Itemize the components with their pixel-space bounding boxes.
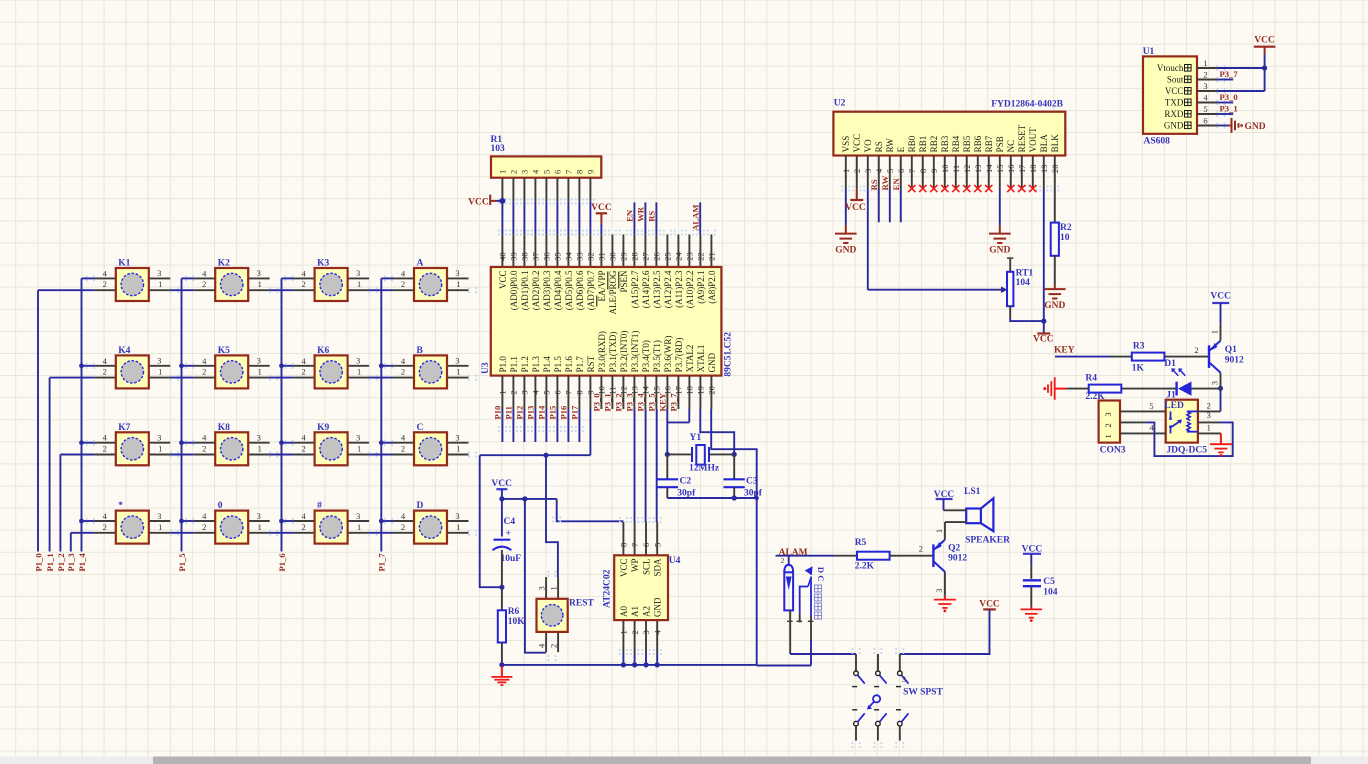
svg-text:WR: WR [636, 206, 646, 222]
svg-text:2: 2 [781, 556, 785, 565]
svg-text:1: 1 [258, 444, 262, 454]
svg-text:34: 34 [564, 252, 574, 261]
svg-text:C2: C2 [680, 477, 692, 487]
svg-text:(AD3)P0.3: (AD3)P0.3 [542, 270, 552, 310]
svg-text:P3_7: P3_7 [669, 393, 679, 412]
svg-text:1K: 1K [1132, 363, 1145, 373]
svg-text:1: 1 [1207, 422, 1211, 432]
svg-text:VCC: VCC [1033, 335, 1054, 345]
svg-text:1: 1 [498, 170, 508, 174]
svg-text:EN: EN [625, 209, 635, 222]
svg-text:1: 1 [258, 367, 262, 377]
svg-text:RW: RW [885, 138, 895, 153]
svg-text:17: 17 [674, 386, 684, 395]
svg-text:2: 2 [301, 444, 305, 454]
svg-text:5: 5 [1203, 104, 1207, 114]
svg-text:RB1: RB1 [918, 136, 928, 153]
svg-text:2: 2 [103, 279, 107, 289]
svg-text:4: 4 [202, 433, 207, 443]
svg-text:P3.3(INT1): P3.3(INT1) [630, 331, 640, 373]
svg-text:BLA: BLA [1039, 134, 1049, 153]
svg-text:9012: 9012 [1225, 356, 1244, 366]
svg-text:3: 3 [356, 356, 360, 366]
svg-text:PSB: PSB [995, 136, 1005, 152]
svg-text:WP: WP [630, 559, 640, 573]
svg-text:20: 20 [707, 386, 717, 395]
svg-text:2: 2 [509, 170, 519, 174]
svg-text:(AD5)P0.5: (AD5)P0.5 [564, 270, 574, 310]
svg-text:P1.5: P1.5 [553, 356, 563, 373]
svg-text:1: 1 [1209, 330, 1219, 334]
svg-text:JDQ-DC5: JDQ-DC5 [1166, 445, 1207, 455]
svg-text:3: 3 [1103, 412, 1113, 416]
svg-text:30pf: 30pf [744, 489, 763, 499]
svg-text:GND: GND [1245, 122, 1266, 132]
svg-text:5: 5 [1149, 401, 1153, 411]
svg-text:GND: GND [653, 597, 663, 617]
svg-text:3: 3 [455, 268, 459, 278]
svg-text:VCC: VCC [852, 134, 862, 153]
svg-text:Y1: Y1 [690, 433, 702, 443]
svg-text:GND: GND [989, 246, 1010, 256]
svg-text:P1.1: P1.1 [509, 356, 519, 372]
svg-text:1: 1 [258, 279, 262, 289]
svg-text:3: 3 [257, 511, 261, 521]
svg-text:LED: LED [1164, 401, 1184, 411]
svg-text:K2: K2 [218, 259, 230, 269]
svg-text:VCC: VCC [979, 599, 1000, 609]
svg-text:2: 2 [630, 630, 640, 634]
svg-text:(A12)P2.4: (A12)P2.4 [663, 270, 673, 308]
svg-text:6: 6 [553, 390, 563, 394]
svg-text:21: 21 [707, 252, 717, 261]
svg-text:GND: GND [1044, 301, 1065, 311]
svg-text:P1_0: P1_0 [33, 553, 43, 571]
svg-text:Vtouch: Vtouch [1157, 63, 1184, 73]
svg-text:4: 4 [202, 511, 207, 521]
svg-text:1: 1 [1103, 434, 1113, 438]
svg-text:35: 35 [553, 252, 563, 261]
svg-text:P3_4: P3_4 [636, 393, 646, 412]
svg-text:1: 1 [841, 169, 851, 173]
svg-text:VO: VO [863, 139, 873, 152]
svg-text:RB3: RB3 [940, 135, 950, 152]
svg-text:P1_3: P1_3 [66, 553, 76, 571]
svg-text:2.2K: 2.2K [855, 562, 875, 572]
svg-text:1: 1 [357, 279, 361, 289]
svg-text:4: 4 [531, 169, 541, 174]
svg-text:40: 40 [498, 252, 508, 260]
svg-text:2: 2 [103, 444, 107, 454]
svg-text:A2: A2 [641, 606, 651, 617]
svg-text:P3_3: P3_3 [625, 393, 635, 411]
svg-text:2: 2 [1194, 345, 1198, 355]
svg-text:4: 4 [103, 356, 108, 366]
svg-text:7: 7 [907, 169, 917, 173]
svg-text:38: 38 [520, 252, 530, 261]
svg-text:3: 3 [356, 268, 360, 278]
svg-text:RS: RS [647, 211, 657, 222]
svg-text:Sout: Sout [1167, 75, 1184, 85]
svg-text:4: 4 [652, 630, 662, 635]
svg-text:U2: U2 [834, 99, 846, 109]
svg-text:J1: J1 [1166, 390, 1176, 400]
svg-text:6: 6 [553, 170, 563, 174]
svg-text:A: A [417, 259, 424, 269]
svg-text:#: # [317, 501, 322, 511]
svg-text:RW: RW [880, 175, 890, 190]
svg-text:XTAL2: XTAL2 [685, 345, 695, 373]
svg-text:18: 18 [1028, 165, 1038, 174]
svg-text:B: B [417, 346, 424, 356]
svg-text:104: 104 [1016, 278, 1031, 288]
svg-text:P1_6: P1_6 [277, 553, 287, 572]
svg-text:+: + [506, 529, 511, 539]
svg-text:Q1: Q1 [1225, 345, 1237, 355]
svg-text:VCC: VCC [1165, 86, 1184, 96]
svg-text:7: 7 [564, 390, 574, 394]
svg-text:9: 9 [929, 169, 939, 173]
svg-text:3: 3 [157, 511, 161, 521]
svg-text:P1_1: P1_1 [45, 553, 55, 571]
svg-text:P13: P13 [526, 406, 536, 420]
svg-text:P1_7: P1_7 [377, 553, 387, 572]
svg-text:10: 10 [1060, 233, 1070, 243]
svg-text:4: 4 [103, 268, 108, 278]
svg-text:10uF: 10uF [501, 554, 522, 564]
svg-text:6: 6 [896, 169, 906, 173]
svg-text:8: 8 [918, 169, 928, 173]
svg-text:2: 2 [919, 544, 923, 554]
svg-text:P3.2(INT0): P3.2(INT0) [619, 331, 629, 373]
svg-text:SPEAKER: SPEAKER [965, 536, 1010, 546]
svg-text:ALAM: ALAM [690, 205, 700, 231]
svg-text:0: 0 [218, 501, 223, 511]
svg-text:C5: C5 [1043, 577, 1055, 587]
svg-text:4: 4 [301, 268, 306, 278]
svg-text:39: 39 [509, 252, 519, 261]
svg-text:LS1: LS1 [964, 487, 981, 497]
svg-text:(AD1)P0.1: (AD1)P0.1 [520, 271, 530, 311]
svg-text:104: 104 [1043, 588, 1058, 598]
svg-text:16: 16 [1006, 165, 1016, 174]
svg-text:3: 3 [157, 356, 161, 366]
svg-text:11: 11 [951, 165, 961, 173]
svg-text:3: 3 [356, 433, 360, 443]
svg-text:(A10)P2.2: (A10)P2.2 [685, 271, 695, 309]
svg-text:A0: A0 [619, 606, 629, 617]
svg-text:10: 10 [597, 386, 607, 395]
svg-text:U3: U3 [481, 362, 491, 374]
svg-text:GND: GND [707, 352, 717, 372]
svg-text:RST: RST [586, 355, 596, 372]
svg-text:RESET: RESET [1017, 124, 1027, 152]
svg-text:3: 3 [863, 169, 873, 173]
svg-text:VCC: VCC [619, 559, 629, 578]
svg-text:EN: EN [891, 178, 901, 191]
svg-text:9012: 9012 [948, 554, 967, 564]
svg-text:BLK: BLK [1050, 134, 1060, 153]
svg-text:30: 30 [608, 252, 618, 261]
svg-text:1: 1 [158, 444, 162, 454]
svg-text:2: 2 [103, 367, 107, 377]
svg-text:3: 3 [455, 356, 459, 366]
svg-text:XTAL1: XTAL1 [696, 345, 706, 373]
svg-text:P10: P10 [493, 406, 503, 420]
svg-text:VCC: VCC [845, 203, 866, 213]
svg-text:3: 3 [520, 170, 530, 174]
svg-text:3: 3 [257, 356, 261, 366]
svg-text:D1: D1 [1164, 359, 1176, 369]
svg-text:P1.2: P1.2 [520, 356, 530, 372]
svg-text:P3_0: P3_0 [592, 393, 602, 411]
svg-text:2: 2 [852, 169, 862, 173]
svg-text:5: 5 [542, 390, 552, 394]
svg-text:2: 2 [202, 279, 206, 289]
svg-text:NC: NC [1006, 140, 1016, 153]
svg-text:RS: RS [874, 141, 884, 152]
svg-text:R3: R3 [1133, 341, 1145, 351]
svg-text:AS608: AS608 [1144, 136, 1171, 146]
svg-text:(A15)P2.7: (A15)P2.7 [630, 270, 640, 308]
svg-text:K5: K5 [218, 346, 230, 356]
svg-text:P3_1: P3_1 [1220, 104, 1238, 114]
svg-text:CON3: CON3 [1100, 445, 1126, 455]
svg-text:P3.7(RD): P3.7(RD) [674, 338, 684, 373]
svg-text:1: 1 [158, 522, 162, 532]
svg-text:2: 2 [509, 390, 519, 394]
svg-text:2: 2 [401, 444, 405, 454]
svg-text:1: 1 [357, 367, 361, 377]
svg-text:32: 32 [586, 252, 596, 261]
svg-text:4: 4 [202, 356, 207, 366]
svg-text:3: 3 [1209, 381, 1219, 385]
svg-text:RT1: RT1 [1016, 268, 1034, 278]
svg-text:12: 12 [619, 386, 629, 395]
svg-text:10K: 10K [508, 617, 526, 627]
svg-text:RB0: RB0 [907, 135, 917, 152]
svg-text:2: 2 [301, 522, 305, 532]
svg-text:3: 3 [934, 589, 944, 593]
svg-text:P12: P12 [515, 406, 525, 420]
svg-text:1: 1 [456, 279, 460, 289]
svg-text:3: 3 [455, 511, 459, 521]
svg-text:1: 1 [498, 390, 508, 394]
svg-text:12: 12 [962, 165, 972, 174]
svg-text:P3_0: P3_0 [1220, 92, 1238, 102]
svg-text:P3_5: P3_5 [647, 393, 657, 411]
svg-text:E: E [896, 146, 906, 152]
svg-text:23: 23 [685, 252, 695, 261]
svg-text:3: 3 [356, 511, 360, 521]
svg-text:*: * [118, 501, 123, 511]
svg-text:7: 7 [564, 170, 574, 174]
svg-text:K7: K7 [118, 423, 130, 433]
svg-text:9: 9 [586, 170, 596, 174]
svg-text:P14: P14 [537, 405, 547, 420]
svg-text:18: 18 [685, 386, 695, 395]
svg-text:2: 2 [1203, 69, 1207, 79]
svg-text:P16: P16 [559, 405, 569, 420]
svg-text:RS: RS [869, 179, 879, 190]
svg-text:P15: P15 [548, 406, 558, 420]
svg-text:3: 3 [520, 390, 530, 394]
svg-text:ALE/PROG: ALE/PROG [608, 270, 618, 315]
svg-text:P3_1: P3_1 [603, 393, 613, 411]
svg-text:3: 3 [537, 586, 547, 590]
svg-text:3: 3 [257, 268, 261, 278]
svg-text:RB2: RB2 [929, 136, 939, 153]
svg-text:VCC: VCC [591, 203, 612, 213]
svg-text:K1: K1 [118, 259, 130, 269]
svg-text:(A14)P2.6: (A14)P2.6 [641, 270, 651, 308]
svg-text:P1.3: P1.3 [531, 356, 541, 373]
svg-text:4: 4 [202, 268, 207, 278]
svg-text:3: 3 [1207, 410, 1211, 420]
svg-text:SDA: SDA [653, 558, 663, 577]
svg-text:2: 2 [401, 522, 405, 532]
svg-text:4: 4 [103, 511, 108, 521]
svg-text:C: C [417, 423, 424, 433]
svg-text:8: 8 [575, 170, 585, 174]
svg-text:26: 26 [652, 252, 662, 261]
svg-text:4: 4 [531, 390, 541, 395]
svg-text:7: 7 [630, 543, 640, 547]
svg-text:28: 28 [630, 252, 640, 261]
svg-text:1: 1 [456, 444, 460, 454]
svg-text:36: 36 [542, 252, 552, 261]
svg-text:5: 5 [652, 543, 662, 547]
svg-text:R4: R4 [1085, 374, 1097, 384]
svg-text:2: 2 [549, 644, 559, 648]
svg-text:2: 2 [301, 279, 305, 289]
svg-text:4: 4 [301, 433, 306, 443]
svg-text:P3.4(T0): P3.4(T0) [641, 340, 651, 372]
svg-text:29: 29 [619, 252, 629, 261]
svg-text:6: 6 [1203, 115, 1207, 125]
svg-text:EA/VPP: EA/VPP [597, 271, 607, 302]
svg-text:P3.0(RXD): P3.0(RXD) [597, 331, 607, 372]
svg-text:12MHz: 12MHz [689, 464, 720, 474]
svg-text:3: 3 [641, 630, 651, 634]
svg-text:8: 8 [619, 543, 629, 547]
svg-text:3: 3 [257, 433, 261, 443]
svg-text:8: 8 [575, 390, 585, 394]
svg-text:14: 14 [641, 385, 651, 394]
svg-text:3: 3 [902, 674, 906, 684]
svg-text:3: 3 [1203, 81, 1207, 91]
svg-text:(A11)P2.3: (A11)P2.3 [674, 270, 684, 308]
svg-text:R6: R6 [508, 607, 520, 617]
svg-text:RB5: RB5 [962, 135, 972, 152]
svg-text:1: 1 [456, 367, 460, 377]
svg-text:VCC: VCC [1210, 291, 1231, 301]
svg-text:RB6: RB6 [973, 135, 983, 152]
svg-text:89C51.C52: 89C51.C52 [724, 332, 734, 377]
svg-text:30pf: 30pf [677, 489, 696, 499]
svg-text:P1_4: P1_4 [77, 553, 87, 572]
svg-text:27: 27 [641, 252, 651, 261]
svg-text:R5: R5 [855, 538, 867, 548]
svg-text:VCC: VCC [491, 479, 512, 489]
svg-text:R2: R2 [1060, 223, 1072, 233]
svg-text:KEY: KEY [1054, 346, 1075, 356]
svg-text:K6: K6 [317, 346, 329, 356]
svg-text:VCC: VCC [1254, 36, 1275, 46]
svg-text:1: 1 [158, 367, 162, 377]
svg-text:A1: A1 [630, 606, 640, 617]
svg-text:U4: U4 [669, 556, 681, 566]
svg-text:SW SPST: SW SPST [903, 688, 943, 698]
svg-text:TXD: TXD [1165, 98, 1184, 108]
svg-text:24: 24 [674, 252, 684, 261]
svg-text:103: 103 [491, 144, 506, 154]
svg-text:D: D [417, 501, 424, 511]
svg-text:15: 15 [995, 165, 1005, 174]
svg-text:2: 2 [202, 444, 206, 454]
svg-text:33: 33 [575, 252, 585, 261]
svg-text:25: 25 [663, 252, 673, 261]
svg-text:1: 1 [357, 444, 361, 454]
svg-text:P1.6: P1.6 [564, 356, 574, 373]
svg-text:19: 19 [696, 386, 706, 395]
svg-text:14: 14 [984, 164, 994, 173]
svg-text:GND: GND [835, 246, 856, 256]
svg-text:C4: C4 [504, 517, 516, 527]
svg-text:P1_2: P1_2 [56, 553, 66, 571]
svg-text:K8: K8 [218, 423, 230, 433]
svg-text:2: 2 [401, 367, 405, 377]
svg-text:KEY: KEY [658, 392, 668, 411]
svg-text:(A13)P2.5: (A13)P2.5 [652, 270, 662, 308]
svg-text:22: 22 [696, 252, 706, 261]
svg-text:2: 2 [1103, 423, 1113, 427]
svg-text:37: 37 [531, 252, 541, 261]
svg-text:P3.6(WR): P3.6(WR) [663, 336, 673, 373]
svg-text:SCL: SCL [641, 559, 651, 576]
svg-text:1: 1 [158, 279, 162, 289]
svg-text:19: 19 [1039, 165, 1049, 174]
svg-text:P1.4: P1.4 [542, 356, 552, 373]
svg-text:(AD4)P0.4: (AD4)P0.4 [553, 270, 563, 310]
svg-text:2: 2 [202, 367, 206, 377]
svg-text:VCC: VCC [498, 271, 508, 290]
svg-text:(AD6)P0.6: (AD6)P0.6 [575, 270, 585, 310]
svg-text:P1.7: P1.7 [575, 356, 585, 373]
svg-text:20: 20 [1050, 165, 1060, 174]
svg-text:1: 1 [357, 522, 361, 532]
svg-text:(AD0)P0.0: (AD0)P0.0 [509, 270, 519, 310]
svg-text:RXD: RXD [1164, 109, 1184, 119]
svg-text:VSS: VSS [841, 136, 851, 153]
svg-text:VOUT: VOUT [1028, 127, 1038, 152]
svg-text:GND: GND [1164, 121, 1184, 131]
svg-text:2: 2 [301, 367, 305, 377]
svg-text:(AD2)P0.2: (AD2)P0.2 [531, 271, 541, 311]
svg-text:2: 2 [202, 522, 206, 532]
svg-text:3: 3 [157, 268, 161, 278]
svg-text:D: D [816, 567, 826, 573]
svg-text:RB7: RB7 [984, 135, 994, 152]
svg-text:1: 1 [934, 529, 944, 533]
svg-text:4: 4 [301, 356, 306, 366]
svg-text:REST: REST [569, 599, 594, 609]
svg-text:P11: P11 [504, 406, 514, 419]
svg-text:C: C [816, 575, 826, 581]
svg-text:31: 31 [597, 252, 607, 261]
svg-text:Q2: Q2 [948, 543, 960, 553]
svg-text:K9: K9 [317, 423, 329, 433]
